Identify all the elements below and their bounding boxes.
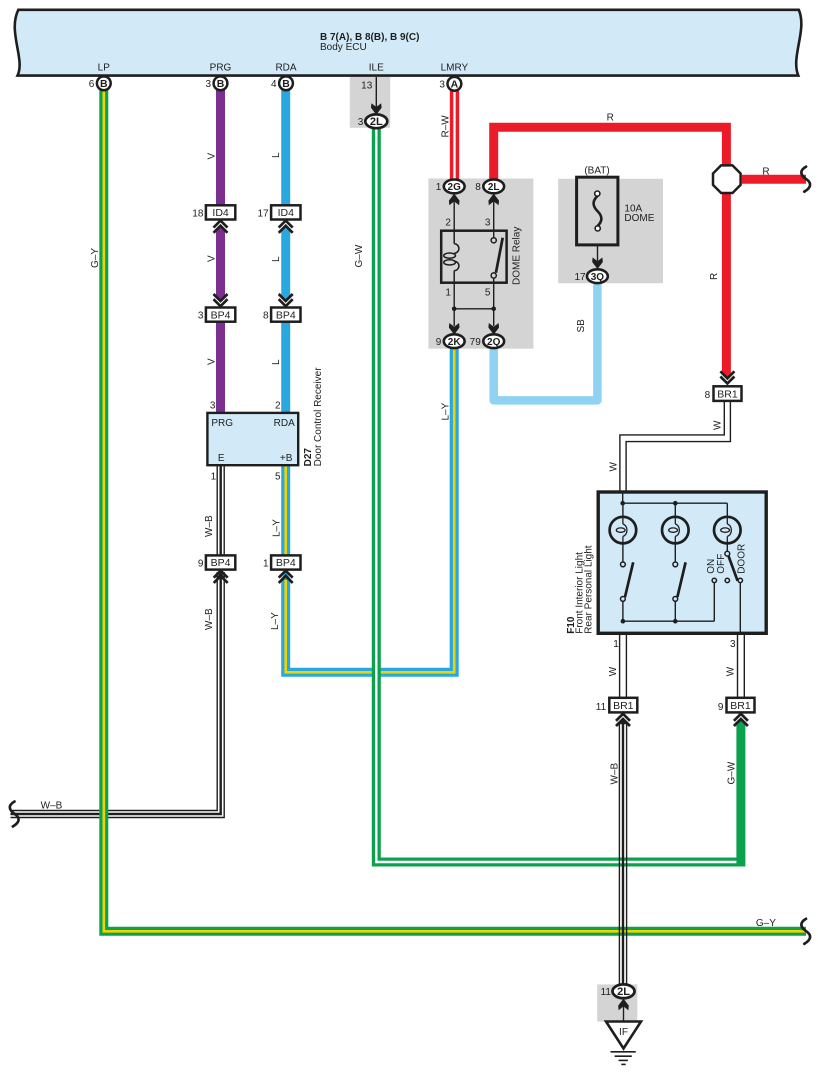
- connector ellipse 3Q pin 17: [587, 269, 608, 283]
- svg-text:1: 1: [445, 288, 451, 299]
- svg-text:BP4: BP4: [211, 309, 231, 321]
- F10 internal top bus: [622, 491, 624, 504]
- svg-text:L: L: [271, 359, 282, 365]
- DOME fuse box 10A: [577, 177, 618, 245]
- svg-text:BP4: BP4: [276, 309, 296, 321]
- connector BP4 pin 8 (RDA column): [279, 294, 293, 301]
- F10 bulb 1: [610, 517, 637, 544]
- svg-text:17: 17: [574, 272, 586, 283]
- connector ID4 pin 18 (PRG column): [206, 205, 235, 219]
- relay connector ellipse 2G pin 1: [444, 180, 465, 194]
- svg-text:2L: 2L: [370, 116, 383, 128]
- torn end of R wire: [801, 167, 810, 192]
- svg-text:R–W: R–W: [440, 115, 451, 138]
- relay coil: [453, 231, 455, 244]
- svg-text:W: W: [726, 666, 737, 676]
- connector circle B at PRG, pin 3: [214, 76, 228, 90]
- svg-text:DOOR: DOOR: [737, 544, 748, 574]
- svg-text:5: 5: [275, 471, 281, 482]
- wire tip L-Y at BP4 (1): [281, 572, 290, 579]
- svg-text:L: L: [271, 152, 282, 158]
- relay switch: [493, 231, 495, 238]
- svg-text:IF: IF: [619, 1027, 628, 1038]
- svg-text:L–Y: L–Y: [270, 612, 281, 630]
- svg-text:W–B: W–B: [41, 801, 63, 812]
- svg-text:V: V: [206, 255, 217, 262]
- wire R from relay 2L up, right and down to BR1 (8): [494, 127, 727, 373]
- svg-text:B: B: [217, 78, 225, 90]
- svg-text:3: 3: [439, 79, 445, 90]
- wire W-B from BP4 (9) down and left to torn end: [11, 572, 218, 811]
- svg-text:A: A: [451, 79, 459, 91]
- wire R-W from LMRY A down to relay 2G: [450, 91, 454, 180]
- svg-text:L–Y: L–Y: [441, 402, 452, 420]
- relay connector ellipse 2Q pin 79: [483, 334, 504, 348]
- svg-text:3: 3: [198, 311, 204, 322]
- svg-text:8: 8: [705, 390, 711, 401]
- fuse lead line and arrow to 3Q: [597, 245, 599, 261]
- svg-text:6: 6: [89, 79, 95, 90]
- svg-text:17: 17: [257, 209, 269, 220]
- svg-text:2K: 2K: [448, 337, 462, 348]
- svg-text:9: 9: [436, 337, 442, 348]
- connector BR1 pin 9: [727, 698, 755, 713]
- svg-text:ID4: ID4: [278, 207, 295, 219]
- wire V between ID4 and BP4 (3): [216, 229, 225, 297]
- svg-text:2Q: 2Q: [487, 337, 501, 348]
- connector circle B at LP, pin 6: [97, 76, 111, 90]
- DOME Relay box: [441, 231, 506, 283]
- wire V from PRG down to ID4: [216, 90, 225, 206]
- svg-text:DOME Relay: DOME Relay: [511, 227, 522, 285]
- svg-text:3: 3: [210, 401, 216, 412]
- wire L-Y from relay 2K down, left, up to connector BP4 (1): [286, 347, 455, 672]
- shading box around DOME Relay: [428, 179, 533, 349]
- wire G-W from ILE 2L down, right, up to BR1 (9): [376, 128, 741, 863]
- svg-text:BP4: BP4: [211, 557, 231, 569]
- ground lead line: [623, 1005, 625, 1022]
- F10 bulb 2: [662, 517, 689, 544]
- svg-text:RDA: RDA: [275, 62, 296, 73]
- wire SB from fuse 3Q down-left-up to relay 2Q: [494, 283, 598, 400]
- svg-text:V: V: [206, 153, 217, 160]
- svg-text:1: 1: [613, 639, 619, 650]
- ground triangle IF: [606, 1022, 641, 1049]
- svg-text:V: V: [206, 358, 217, 365]
- F10 switch 1: [622, 543, 624, 562]
- svg-text:2L: 2L: [488, 182, 500, 193]
- svg-text:13: 13: [361, 81, 373, 92]
- svg-text:W–B: W–B: [610, 763, 621, 785]
- wire G-Y from LP down and right to torn end: [104, 90, 806, 932]
- wire tip W-B at BP4 (9): [216, 572, 225, 579]
- arrow to 2Q: [488, 323, 499, 335]
- svg-text:18: 18: [192, 209, 204, 220]
- svg-text:W: W: [712, 420, 723, 430]
- wire R branch from octagon to right torn end: [742, 175, 806, 184]
- svg-text:Rear Personal Light: Rear Personal Light: [584, 545, 595, 634]
- svg-text:PRG: PRG: [210, 62, 232, 73]
- svg-text:+B: +B: [280, 453, 293, 464]
- svg-text:3: 3: [205, 79, 211, 90]
- svg-text:BP4: BP4: [276, 557, 296, 569]
- svg-text:3: 3: [485, 217, 491, 228]
- arrow to 2K: [449, 323, 460, 335]
- svg-text:W–B: W–B: [204, 515, 215, 537]
- svg-text:1: 1: [436, 182, 442, 193]
- connector ID4 pin 17 (RDA column): [271, 205, 300, 219]
- svg-text:2L: 2L: [617, 986, 630, 998]
- svg-text:ILE: ILE: [369, 62, 384, 73]
- shading box around ground connector 2L: [597, 984, 637, 1021]
- svg-text:G–Y: G–Y: [756, 918, 776, 929]
- svg-text:E: E: [218, 453, 225, 464]
- wire L from RDA down to ID4: [281, 90, 290, 206]
- ground symbol bars: [611, 1051, 636, 1053]
- svg-text:G–W: G–W: [354, 244, 365, 267]
- svg-text:Door Control Receiver: Door Control Receiver: [313, 367, 324, 467]
- svg-text:BR1: BR1: [717, 388, 738, 400]
- svg-text:1: 1: [211, 471, 217, 482]
- F10 Front Interior Light / Rear Personal Light box: [598, 492, 766, 633]
- F10 switch 2: [674, 543, 676, 562]
- relay connector ellipse 2L pin 8: [483, 180, 504, 194]
- svg-text:9: 9: [718, 702, 724, 713]
- svg-text:8: 8: [263, 311, 269, 322]
- svg-text:2: 2: [275, 401, 281, 412]
- svg-text:B: B: [282, 78, 290, 90]
- wire L from BP4 (8) to D27 RDA: [281, 322, 290, 413]
- svg-text:LMRY: LMRY: [441, 62, 469, 73]
- svg-text:BR1: BR1: [613, 700, 634, 712]
- connector BR1 pin 11: [609, 698, 637, 713]
- svg-text:L: L: [271, 256, 282, 262]
- ILE branch line with arrow, pin 13: [375, 77, 377, 108]
- torn end of G-Y wire: [801, 919, 810, 944]
- svg-text:W: W: [608, 462, 619, 472]
- connector BP4 pin 1 (L-Y column): [271, 555, 300, 569]
- arrow into relay from 2G: [449, 194, 460, 206]
- svg-text:R: R: [762, 167, 769, 178]
- svg-text:RDA: RDA: [274, 418, 295, 429]
- wire W-B from D27 E down to connector BP4 (9): [216, 465, 218, 555]
- wire L-Y from D27 +B down to connector BP4 (1): [281, 465, 290, 555]
- svg-text:PRG: PRG: [211, 418, 233, 429]
- svg-text:8: 8: [475, 182, 481, 193]
- arrow into ground 2L: [618, 999, 629, 1011]
- svg-text:Body ECU: Body ECU: [320, 42, 367, 53]
- svg-text:G–Y: G–Y: [90, 248, 101, 268]
- svg-text:W: W: [608, 666, 619, 676]
- svg-text:R: R: [709, 273, 720, 280]
- svg-text:2: 2: [445, 217, 451, 228]
- svg-text:3: 3: [358, 117, 364, 128]
- wire L between ID4 and BP4 (8): [281, 229, 290, 297]
- F10 bulb 3: [714, 517, 741, 544]
- shading box around DOME fuse: [558, 179, 663, 283]
- svg-text:B: B: [100, 78, 108, 90]
- svg-text:W–B: W–B: [204, 608, 215, 630]
- svg-text:1: 1: [263, 559, 269, 570]
- wire W-B from BR1 (11) down to ground connector 2L: [618, 722, 620, 985]
- Body ECU band B7(A) B8(B) B9(C): [15, 10, 802, 76]
- svg-text:4: 4: [271, 79, 277, 90]
- junction octagon on R wire: [713, 165, 741, 193]
- connector BR1 pin 8: [720, 371, 734, 378]
- svg-text:5: 5: [485, 288, 491, 299]
- wire tip G-W at BR1 (9): [736, 718, 745, 725]
- svg-text:OFF: OFF: [716, 554, 727, 574]
- svg-text:DOME: DOME: [624, 213, 654, 224]
- wire W double-line F10 pin 3 to BR1 (9): [737, 635, 739, 698]
- F10 bottom bus: [623, 620, 714, 622]
- connector BP4 pin 9 (W-B column): [206, 555, 235, 569]
- svg-text:R: R: [607, 112, 614, 123]
- shading box around ILE connector 2L: [350, 77, 390, 128]
- connector ellipse 2L at ILE, pin 3: [365, 114, 387, 128]
- wire V from BP4 (3) to D27 PRG: [216, 322, 225, 413]
- torn end of W-B wire: [10, 802, 19, 827]
- relay connector ellipse 2K pin 9: [444, 334, 465, 348]
- svg-text:9: 9: [198, 559, 204, 570]
- ground connector ellipse 2L pin 11: [613, 984, 635, 998]
- svg-text:11: 11: [596, 702, 607, 713]
- wire tip W-B at BR1 (11): [618, 718, 627, 725]
- arrow into relay from 2L: [488, 194, 499, 206]
- svg-text:79: 79: [470, 337, 482, 348]
- relay output lines and junction bus: [453, 283, 455, 326]
- svg-text:SB: SB: [576, 319, 587, 333]
- svg-text:11: 11: [601, 987, 612, 998]
- svg-text:2G: 2G: [448, 182, 462, 193]
- svg-text:LP: LP: [98, 62, 111, 73]
- relay lead lines from 2G and 2L: [453, 200, 455, 231]
- connector BP4 pin 3 (PRG column): [214, 294, 228, 301]
- wire W double-line from BR1 (8) down and left into F10: [620, 401, 724, 492]
- D27 Door Control Receiver box: [207, 413, 298, 465]
- wire tip R at BR1 (8): [722, 372, 731, 379]
- svg-text:G–W: G–W: [727, 761, 738, 784]
- svg-text:3: 3: [730, 639, 736, 650]
- connector circle B at RDA, pin 4: [279, 76, 293, 90]
- svg-text:(BAT): (BAT): [584, 166, 609, 177]
- svg-text:ID4: ID4: [212, 207, 229, 219]
- connector circle A at LMRY, pin 3: [448, 77, 462, 91]
- F10 three-position switch ON/OFF/DOOR: [726, 543, 728, 551]
- svg-text:L–Y: L–Y: [272, 519, 283, 537]
- wire W double-line F10 pin 1 to BR1 (11): [619, 635, 621, 698]
- svg-text:3Q: 3Q: [591, 272, 605, 283]
- svg-text:BR1: BR1: [730, 700, 751, 712]
